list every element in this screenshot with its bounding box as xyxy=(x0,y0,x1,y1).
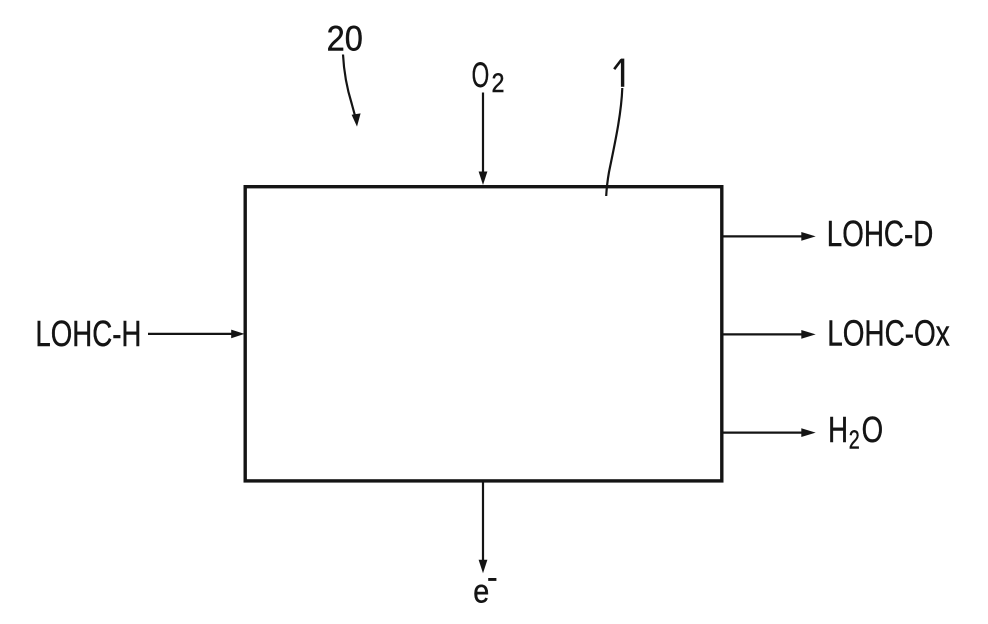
svg-text:H: H xyxy=(828,409,848,450)
svg-text:e: e xyxy=(473,573,489,610)
svg-text:LOHC-H: LOHC-H xyxy=(35,313,141,354)
svg-text:LOHC-Ox: LOHC-Ox xyxy=(827,312,950,353)
svg-text:2: 2 xyxy=(492,68,505,98)
svg-text:2: 2 xyxy=(849,424,860,454)
svg-text:LOHC-D: LOHC-D xyxy=(827,213,934,254)
svg-text:O: O xyxy=(862,409,884,450)
svg-text:20: 20 xyxy=(327,19,363,58)
svg-text:O: O xyxy=(472,56,490,95)
